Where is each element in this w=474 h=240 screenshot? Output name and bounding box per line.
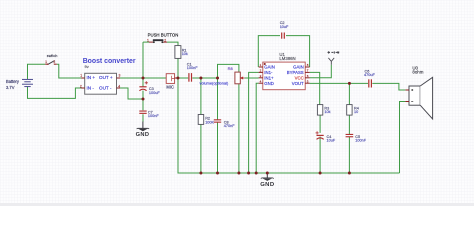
svg-text:LM386N: LM386N bbox=[279, 56, 295, 61]
svg-text:100nF: 100nF bbox=[148, 114, 159, 118]
svg-text:10k: 10k bbox=[182, 52, 188, 56]
svg-text:10uF: 10uF bbox=[280, 25, 289, 29]
svg-text:GND: GND bbox=[264, 81, 274, 86]
svg-text:1: 1 bbox=[80, 74, 82, 78]
svg-text:IN1+: IN1+ bbox=[264, 75, 274, 80]
svg-text:470nF: 470nF bbox=[224, 124, 235, 128]
svg-text:3: 3 bbox=[118, 74, 120, 78]
svg-text:100K: 100K bbox=[205, 120, 214, 124]
svg-text:2: 2 bbox=[80, 84, 82, 88]
svg-text:8ohm: 8ohm bbox=[412, 69, 423, 74]
svg-text:IN1-: IN1- bbox=[264, 70, 273, 75]
svg-text:IN +: IN + bbox=[87, 75, 96, 80]
svg-text:GAIN: GAIN bbox=[264, 65, 275, 70]
svg-text:GAIN: GAIN bbox=[293, 65, 304, 70]
svg-text:470uF: 470uF bbox=[364, 73, 375, 77]
svg-text:100nF: 100nF bbox=[187, 66, 198, 70]
svg-text:10: 10 bbox=[354, 110, 358, 114]
svg-text:2: 2 bbox=[53, 60, 55, 64]
svg-text:PUSH BUTTON: PUSH BUTTON bbox=[148, 33, 179, 38]
svg-text:Boost converter: Boost converter bbox=[83, 58, 136, 65]
svg-text:R8: R8 bbox=[228, 66, 234, 71]
svg-text:volume(optional): volume(optional) bbox=[200, 80, 229, 85]
svg-text:OUT -: OUT - bbox=[99, 86, 112, 91]
svg-text:BYPASS: BYPASS bbox=[287, 70, 304, 75]
svg-text:GND: GND bbox=[136, 132, 150, 138]
svg-text:VCC: VCC bbox=[295, 75, 304, 80]
svg-text:10k: 10k bbox=[324, 110, 330, 114]
svg-text:1: 1 bbox=[147, 38, 149, 42]
svg-text:9v: 9v bbox=[85, 64, 89, 69]
svg-text:10uF: 10uF bbox=[327, 139, 336, 143]
svg-text:switch: switch bbox=[47, 54, 58, 58]
svg-text:100uF: 100uF bbox=[149, 91, 160, 95]
svg-text:VOUT: VOUT bbox=[292, 81, 304, 86]
svg-text:4: 4 bbox=[118, 84, 120, 88]
svg-text:MIC: MIC bbox=[166, 84, 174, 89]
svg-text:100nF: 100nF bbox=[355, 139, 366, 143]
svg-text:Battery: Battery bbox=[6, 79, 20, 84]
svg-text:3.7V: 3.7V bbox=[6, 85, 15, 90]
svg-text:2: 2 bbox=[164, 38, 166, 42]
svg-text:GND: GND bbox=[260, 182, 274, 188]
svg-text:OUT +: OUT + bbox=[99, 75, 113, 80]
svg-text:IN -: IN - bbox=[87, 86, 95, 91]
svg-text:1: 1 bbox=[45, 60, 47, 64]
